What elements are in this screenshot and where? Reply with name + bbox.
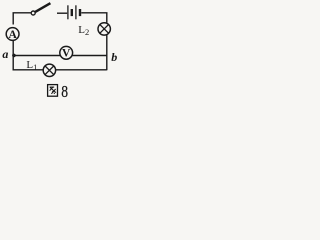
svg-text:V: V — [62, 48, 71, 60]
lamp L2 body — [98, 23, 110, 35]
voltmeter V1 body — [60, 46, 73, 59]
lamp L1 body — [43, 64, 55, 76]
wire switch-to-battery — [57, 12, 67, 14]
switch S lever — [35, 3, 50, 12]
switch S pivot — [31, 11, 35, 15]
wire top-left segment — [13, 13, 31, 25]
battery cell2 short plate — [79, 9, 81, 16]
battery cell1 short plate — [71, 9, 73, 16]
wire node a to node b (voltmeter branch) — [13, 55, 107, 57]
node a junction dot — [12, 54, 16, 58]
caption: character tu (figure) drawn as strokes — [48, 85, 58, 97]
battery cell2 long plate — [75, 5, 77, 19]
svg-text:8: 8 — [61, 83, 68, 102]
wire bottom branch — [13, 40, 107, 70]
svg-text:A: A — [8, 29, 17, 41]
wire battery-to-corner and right side down — [81, 13, 107, 70]
svg-text:a: a — [2, 47, 8, 61]
ammeter A1 body — [6, 28, 19, 41]
battery cell1 long plate — [67, 5, 69, 19]
svg-text:b: b — [111, 50, 117, 64]
